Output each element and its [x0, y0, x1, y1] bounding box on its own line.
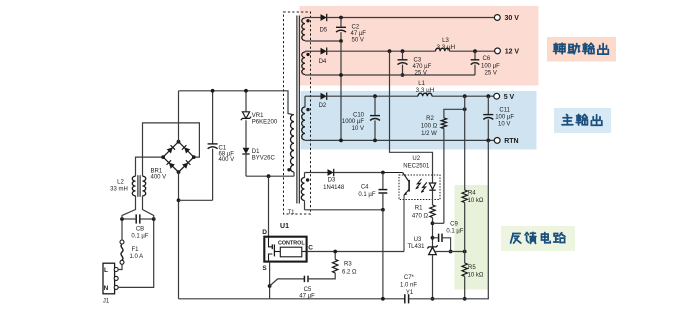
resistor R2 100ohm 1/2W — [444, 109, 465, 118]
svg-text:NEC2501: NEC2501 — [403, 163, 430, 169]
capacitor C4 0.1uF — [382, 173, 384, 190]
wire node CB-left to capacitor — [122, 218, 136, 220]
svg-text:C4: C4 — [361, 184, 369, 190]
secondary winding W3 (5V) of T1 — [302, 107, 305, 140]
wire HV rail — [179, 91, 293, 115]
svg-text:100 Ω: 100 Ω — [421, 123, 438, 129]
svg-text:33 mH: 33 mH — [110, 186, 128, 192]
transformer core — [296, 16, 298, 204]
wire bridge DC- down to primary ground rail — [178, 172, 180, 299]
wire RTN rail — [305, 139, 494, 141]
wire LED cathode to R1 — [432, 190, 434, 205]
svg-text:RTN: RTN — [504, 138, 518, 145]
secondary winding W1 (30V) of T1 — [302, 18, 305, 41]
IC U1 (CONTROL block) — [264, 237, 306, 262]
node HV rail at VR1 — [244, 89, 248, 93]
capacitor C1 68uF 400V — [212, 91, 214, 144]
wire CB-right up to choke L2 — [143, 196, 154, 219]
node cathode at C9 — [431, 236, 435, 240]
node 12V rail at C6 — [473, 49, 477, 53]
diode D3 1N4148 — [328, 169, 334, 176]
svg-text:C: C — [308, 244, 313, 251]
svg-text:1.0 A: 1.0 A — [130, 254, 144, 260]
bridge rectifier BR1 400V — [163, 142, 194, 172]
wire bias return to primary ground — [382, 210, 384, 299]
svg-text:D1: D1 — [252, 149, 260, 155]
wire U1 source pin — [269, 262, 271, 299]
wire aux return rail — [305, 74, 475, 76]
svg-text:P6KE200: P6KE200 — [252, 120, 278, 126]
terminal 30V — [494, 15, 500, 21]
svg-text:50 V: 50 V — [352, 37, 364, 43]
wire CB-left up to choke L2 — [122, 196, 136, 219]
common-mode choke L2 33mH — [132, 176, 135, 196]
svg-text:CONTROL: CONTROL — [278, 241, 305, 247]
node bridge DC- / C1 return — [177, 198, 181, 202]
wire bias node to opto collector — [383, 172, 403, 174]
wire 5V rail — [327, 95, 418, 97]
svg-text:D4: D4 — [319, 59, 327, 65]
resistor R5 10k — [462, 263, 467, 276]
wire W2 top to diode D4 — [305, 50, 321, 52]
svg-text:BYV26C: BYV26C — [252, 156, 276, 162]
node REF at C9 — [449, 250, 453, 254]
resistor R4 10k — [462, 190, 467, 203]
optocoupler U2 LED — [429, 183, 435, 189]
wire control pin to optocoupler emitter — [307, 251, 404, 253]
svg-text:47 µF: 47 µF — [299, 294, 315, 300]
main output highlight region — [301, 91, 537, 150]
wire 5V to R4 — [464, 96, 466, 190]
wire bias winding to D3 — [305, 172, 328, 174]
svg-text:F1: F1 — [132, 247, 140, 253]
node RTN at C11 — [486, 139, 490, 143]
wire source to C5 — [270, 279, 305, 286]
wire TL431 anode to RTN rail — [432, 255, 434, 299]
node 5V rail at C11 — [486, 94, 490, 98]
svg-text:100 µF: 100 µF — [495, 115, 514, 121]
svg-text:Y1: Y1 — [406, 290, 414, 296]
node HV rail at C1 — [211, 89, 215, 93]
node W1 return — [339, 39, 343, 43]
wire bias winding bottom return — [305, 209, 383, 211]
svg-text:470 µF: 470 µF — [413, 64, 432, 70]
wire R2 bottom to cathode node — [433, 222, 444, 224]
wire W3 top to diode D2 — [305, 95, 321, 97]
feedback network highlight region — [455, 185, 489, 290]
svg-text:1.0 nF: 1.0 nF — [400, 282, 417, 288]
svg-text:1/2 W: 1/2 W — [421, 131, 437, 137]
svg-text:3.3 µH: 3.3 µH — [416, 87, 435, 94]
svg-text:0.1 µF: 0.1 µF — [131, 234, 148, 240]
node source — [268, 284, 272, 288]
node bias return — [381, 208, 385, 212]
wire opto emitter down to control wire — [403, 195, 405, 252]
node RTN at C10 — [373, 139, 377, 143]
svg-text:12 V: 12 V — [505, 49, 520, 56]
svg-text:D: D — [262, 229, 267, 236]
svg-text:0.1 µF: 0.1 µF — [358, 192, 375, 198]
svg-text:10 V: 10 V — [352, 126, 364, 132]
svg-text:R2: R2 — [426, 116, 434, 122]
inductor L3 3.3uH — [436, 48, 450, 51]
svg-text:10 kΩ: 10 kΩ — [468, 272, 484, 278]
svg-text:T1: T1 — [287, 210, 295, 216]
wire bridge DC+ up to HV rail — [178, 91, 180, 142]
fuse F1 — [120, 240, 124, 244]
svg-text:1000 µF: 1000 µF — [342, 119, 364, 125]
svg-text:5 V: 5 V — [504, 94, 515, 101]
svg-text:L: L — [104, 267, 108, 274]
wire choke L2 left to bridge AC1 — [136, 157, 164, 176]
wire divider node to R5 — [464, 252, 466, 264]
svg-text:C11: C11 — [499, 108, 510, 114]
svg-text:TL431: TL431 — [407, 244, 425, 250]
wire primary ground rail right — [270, 298, 405, 300]
svg-text:470 Ω: 470 Ω — [412, 213, 429, 219]
node secondary ground at R5 — [463, 297, 467, 301]
diode D1 BYV26C — [243, 148, 250, 154]
wire J1 L pin to fuse — [118, 264, 122, 269]
svg-text:400 V: 400 V — [151, 174, 167, 180]
svg-text:N: N — [104, 285, 109, 292]
capacitor C9 0.1uF — [433, 237, 439, 239]
wire C5 to R3 — [308, 273, 335, 279]
node R1 bottom / R2 join — [431, 221, 435, 225]
node aux return at C3 — [401, 73, 405, 77]
svg-text:3.3 µH: 3.3 µH — [436, 44, 455, 51]
svg-text:C3: C3 — [414, 57, 422, 63]
resistor R3 6.2ohm — [333, 259, 338, 273]
svg-text:S: S — [262, 265, 267, 272]
secondary winding W2 (12V) of T1 — [302, 52, 305, 75]
node 5V rail at divider feed — [463, 94, 467, 98]
svg-text:L2: L2 — [117, 179, 124, 185]
wire 12V rail — [327, 50, 436, 52]
node primary ground at bias return — [381, 297, 385, 301]
svg-text:U3: U3 — [414, 237, 422, 243]
svg-text:C9: C9 — [450, 221, 458, 227]
capacitor C5 47uF — [303, 276, 305, 282]
svg-text:C7*: C7* — [404, 275, 415, 281]
svg-text:C10: C10 — [353, 112, 365, 118]
svg-text:J1: J1 — [103, 299, 110, 305]
auxiliary output highlight region — [300, 6, 539, 86]
capacitor C11 100uF 10V — [487, 96, 489, 114]
node aux return at trunk — [339, 73, 343, 77]
svg-text:0.1 µF: 0.1 µF — [446, 229, 463, 235]
node secondary ground at TL431 — [431, 297, 435, 301]
wire W1 top to diode D5 — [305, 17, 321, 19]
main output label box 主输出 — [554, 108, 611, 133]
wire W1 bottom return — [305, 40, 341, 42]
svg-text:VR1: VR1 — [252, 113, 264, 119]
node 12V rail at C3 — [401, 49, 405, 53]
bias winding of T1 — [301, 178, 304, 201]
auxiliary output label box 辅助输出 — [547, 37, 616, 62]
wire R3 to control pin wire — [334, 252, 336, 260]
svg-text:R1: R1 — [415, 205, 423, 211]
node 30V rail at C2 — [339, 16, 343, 20]
svg-text:6.2 Ω: 6.2 Ω — [342, 269, 357, 275]
optocoupler U2 light arrows — [416, 179, 422, 189]
terminal 12V — [495, 48, 501, 54]
wire TL431 ref — [435, 251, 464, 253]
wire primary ground rail left — [179, 298, 270, 300]
node divider midpoint — [463, 250, 467, 254]
node CB-right — [152, 217, 156, 221]
capacitor C10 1000uF 10V — [374, 96, 376, 115]
wire U1 drain pin — [268, 176, 270, 237]
svg-text:25 V: 25 V — [485, 70, 497, 76]
svg-text:D2: D2 — [319, 103, 327, 109]
feedback label box 反馈电路 — [501, 226, 575, 251]
node R2 top at divider feed — [463, 107, 467, 111]
resistor R1 470ohm — [430, 205, 435, 218]
wire 5V rail after L1 — [432, 95, 494, 97]
TVS VR1 P6KE200 — [245, 91, 247, 112]
diode D2 — [321, 93, 327, 100]
wire 30V rail — [327, 17, 495, 19]
capacitor C6 100uF 25V — [474, 51, 476, 60]
wire 12V feed to opto LED — [390, 51, 433, 183]
shunt regulator U3 TL431 — [427, 245, 437, 248]
node RTN at trunk — [339, 139, 343, 143]
optocoupler U2 NEC2501 boundary (dashed) — [399, 175, 440, 200]
svg-text:D5: D5 — [319, 27, 327, 33]
wire choke L2 right to bridge AC2 — [143, 123, 200, 176]
wire secondary ground rail — [409, 140, 489, 298]
wire R5 to secondary ground — [464, 276, 466, 299]
capacitor C2 47uF 50V — [340, 18, 342, 28]
wire R1 to TL431 cathode — [432, 218, 434, 247]
svg-text:U2: U2 — [412, 156, 420, 162]
svg-text:47 µF: 47 µF — [351, 31, 367, 37]
wire secondary return trunk — [340, 41, 342, 140]
capacitor C3 470uF 25V — [402, 51, 404, 60]
svg-text:30 V: 30 V — [505, 15, 520, 22]
svg-text:C5: C5 — [304, 287, 312, 293]
capacitor CB 0.1uF (X cap) — [135, 214, 137, 223]
svg-text:C2: C2 — [352, 24, 360, 30]
wire clamp to primary winding bottom / drain node — [246, 175, 294, 177]
node drain — [267, 174, 271, 178]
optocoupler U2 phototransistor — [403, 173, 410, 182]
node bias supply — [381, 171, 385, 175]
svg-text:R4: R4 — [468, 191, 476, 197]
svg-text:10 kΩ: 10 kΩ — [468, 198, 484, 204]
svg-text:10 V: 10 V — [498, 121, 510, 127]
wire J1 N pin to node CB-right — [118, 219, 154, 287]
svg-text:U1: U1 — [280, 223, 289, 230]
diode D4 — [321, 48, 327, 55]
wire 12V rail after L3 — [450, 50, 495, 52]
wire fuse to node CB-left — [121, 219, 123, 240]
svg-text:1N4148: 1N4148 — [323, 185, 345, 191]
wire R4 to divider node — [464, 203, 466, 252]
svg-text:D3: D3 — [328, 178, 336, 184]
node CB-left — [120, 217, 124, 221]
terminal 5V — [494, 93, 500, 99]
capacitor C7* 1.0nF Y1 — [404, 294, 406, 303]
primary winding of T1 — [291, 115, 295, 173]
wire D3 to bias node — [334, 172, 383, 174]
wire capacitor CB to node CB-right — [140, 218, 154, 220]
transformer T1 boundary (dashed) — [284, 12, 311, 214]
terminal RTN — [494, 138, 500, 144]
svg-text:R5: R5 — [468, 265, 476, 271]
diode D5 — [321, 14, 327, 21]
inductor L1 3.3uH — [418, 93, 432, 96]
wire C1 bottom to DC- node — [179, 199, 213, 201]
node 5V rail at C10 — [373, 94, 377, 98]
svg-text:100 µF: 100 µF — [481, 63, 500, 69]
svg-text:C6: C6 — [483, 56, 491, 62]
svg-text:CB: CB — [136, 227, 144, 233]
node 12V rail at opto feed — [388, 49, 392, 53]
node control pin at R3 — [333, 250, 337, 254]
connector J1 — [103, 263, 115, 294]
svg-text:R3: R3 — [344, 262, 352, 268]
svg-text:400 V: 400 V — [219, 157, 235, 163]
